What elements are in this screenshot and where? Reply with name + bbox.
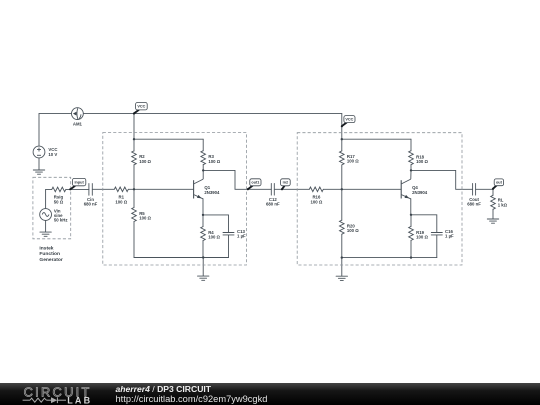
wire C12 to R16 (274, 188, 309, 190)
node flag in2 (281, 179, 291, 190)
svg-text:2N3904: 2N3904 (204, 190, 220, 195)
wire out path stage2 (411, 170, 473, 189)
svg-text:AM1: AM1 (73, 121, 83, 126)
resistor R18 (410, 139, 412, 151)
wire stage2 bottom rail (342, 257, 437, 259)
junction R2/R5/base node (133, 188, 135, 190)
resistor R1 (114, 187, 128, 192)
svg-text:100 Ω: 100 Ω (347, 228, 359, 233)
svg-text:680 nF: 680 nF (266, 201, 280, 206)
wire VCC drop to stage1 (133, 114, 135, 151)
resistor R16 (309, 187, 323, 192)
junction VCC rail stage2 (341, 138, 343, 140)
svg-text:LAB: LAB (67, 395, 92, 405)
resistor R5 (133, 189, 135, 207)
ground Vin (40, 232, 51, 236)
wire Q1 emitter down (202, 199, 204, 215)
transistor Q1 (194, 170, 204, 198)
wire stage1 bottom rail (134, 257, 229, 259)
svg-text:input: input (74, 180, 84, 184)
svg-text:100 Ω: 100 Ω (139, 159, 151, 164)
resistor R17 (340, 151, 345, 165)
junction stage1 ground rail (202, 256, 204, 258)
junction Q1 emitter node (202, 214, 204, 216)
svg-text:100 Ω: 100 Ω (347, 158, 359, 163)
svg-text:out1: out1 (251, 181, 259, 185)
svg-text:100 Ω: 100 Ω (208, 235, 220, 240)
svg-text:Generator: Generator (39, 257, 62, 263)
node flag out (492, 179, 504, 190)
source VCC 10V (33, 146, 45, 158)
resistor RL (492, 189, 494, 195)
junction R17/R20/base node (341, 188, 343, 190)
ground VCC (33, 170, 44, 174)
svg-text:1 µF: 1 µF (237, 234, 246, 239)
svg-text:100 Ω: 100 Ω (416, 159, 428, 164)
resistor Rsig (46, 189, 52, 208)
capacitor Cin (88, 184, 90, 196)
svg-text:VCC: VCC (345, 117, 353, 121)
wire Cout to out node (476, 188, 493, 190)
wire stage2 top rail (342, 138, 411, 140)
ground stage2 (341, 258, 343, 276)
wire stage1 top rail (134, 138, 203, 140)
ground stage1 (202, 258, 204, 276)
source Vin sine (40, 209, 52, 221)
wire R16 to Q4 base (323, 188, 401, 190)
capacitor Cout (472, 184, 474, 196)
wire Vin to ground (45, 220, 47, 232)
ground RL (487, 219, 498, 223)
wire R2 bottom (133, 165, 135, 190)
footer logo circuit line (23, 397, 66, 403)
svg-text:100 Ω: 100 Ω (139, 216, 151, 221)
svg-text:680 nF: 680 nF (467, 201, 481, 206)
svg-text:100 Ω: 100 Ω (115, 199, 127, 204)
junction Q1 collector node (202, 169, 204, 171)
junction VCC rail stage1 (133, 138, 135, 140)
svg-text:50 Ω: 50 Ω (54, 199, 64, 204)
footer bar (0, 383, 540, 405)
resistor R19 (410, 215, 412, 227)
wire Q4 emitter down (410, 199, 412, 215)
junction Q4 collector node (410, 169, 412, 171)
dashed box stage2 (297, 133, 462, 265)
capacitor C16 branch (411, 215, 437, 233)
transistor Q4 (401, 170, 411, 198)
ammeter AM1 (72, 108, 84, 120)
wire top horizontal rail (39, 113, 342, 115)
dashed box stage1 (103, 133, 247, 266)
resistor R3 (202, 139, 204, 151)
wire VCC source bottom (38, 158, 40, 170)
svg-text:Instek: Instek (39, 245, 53, 251)
wire VCC source to top rail (38, 114, 40, 147)
svg-text:1 µF: 1 µF (445, 234, 454, 239)
wire Cin to R1 (92, 188, 114, 190)
svg-text:out: out (496, 181, 503, 185)
wire Rsig to Cin (66, 188, 89, 190)
resistor R2 (132, 151, 137, 165)
svg-text:aherrer4 / DP3 CIRCUIT: aherrer4 / DP3 CIRCUIT (116, 384, 212, 394)
wire R1 to Q1 base (128, 188, 193, 190)
node flag VCC #2 (341, 116, 355, 128)
svg-text:100 Ω: 100 Ω (208, 159, 220, 164)
junction stage2 ground rail left (341, 256, 343, 258)
svg-text:10 V: 10 V (48, 152, 57, 157)
junction R19 bottom rail (410, 256, 412, 258)
svg-text:in2: in2 (283, 181, 289, 185)
dashed box function generator (33, 177, 71, 239)
node flag input (69, 178, 86, 190)
junction Q4 emitter node (410, 214, 412, 216)
wire out1 path (203, 170, 271, 189)
svg-text:http://circuitlab.com/c92em7yw: http://circuitlab.com/c92em7yw9cgkd (116, 394, 268, 404)
svg-text:2N3904: 2N3904 (412, 190, 428, 195)
svg-text:1 kΩ: 1 kΩ (498, 202, 508, 207)
capacitor C13 branch (203, 215, 229, 233)
wire VCC drop to stage2 (341, 114, 343, 151)
capacitor C12 (270, 184, 272, 196)
node flag VCC #1 (133, 103, 147, 115)
svg-text:100 Ω: 100 Ω (416, 235, 428, 240)
node flag out1 (247, 179, 261, 190)
resistor R20 (341, 189, 343, 220)
resistor R4 (202, 215, 204, 227)
svg-text:680 nF: 680 nF (84, 201, 98, 206)
svg-text:Function: Function (39, 251, 60, 257)
svg-text:VCC: VCC (137, 104, 145, 108)
svg-text:100 Ω: 100 Ω (310, 199, 322, 204)
svg-text:50 kHz: 50 kHz (54, 218, 68, 223)
